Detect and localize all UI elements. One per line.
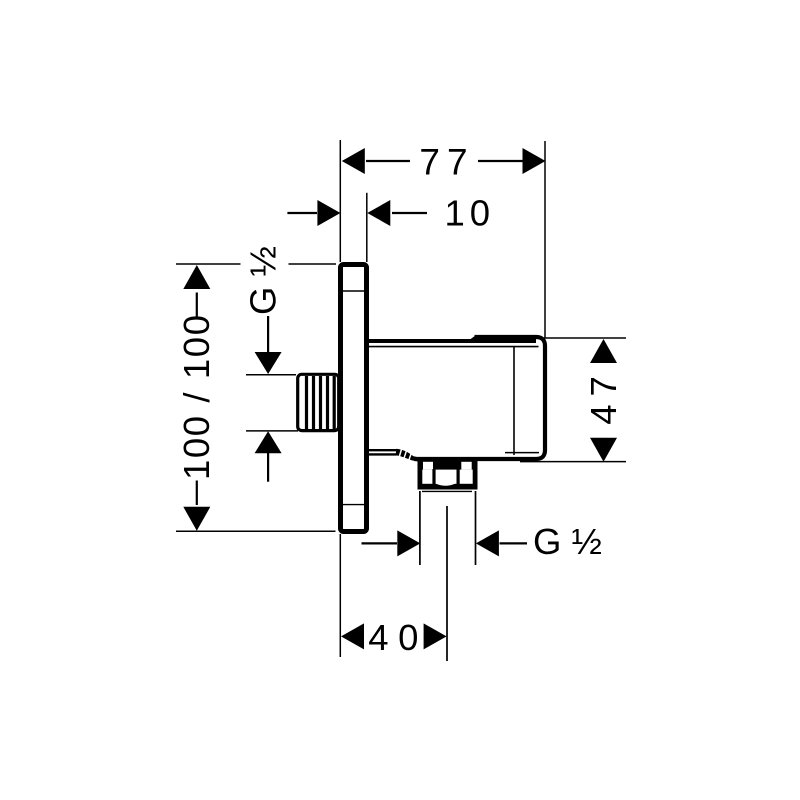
svg-text:77: 77 bbox=[419, 142, 474, 183]
svg-text:40: 40 bbox=[368, 617, 428, 658]
svg-text:G ½: G ½ bbox=[243, 246, 284, 315]
svg-text:10: 10 bbox=[445, 192, 496, 233]
svg-text:47: 47 bbox=[583, 368, 624, 425]
svg-text:100 / 100: 100 / 100 bbox=[176, 313, 217, 480]
svg-text:G ½: G ½ bbox=[533, 521, 602, 562]
